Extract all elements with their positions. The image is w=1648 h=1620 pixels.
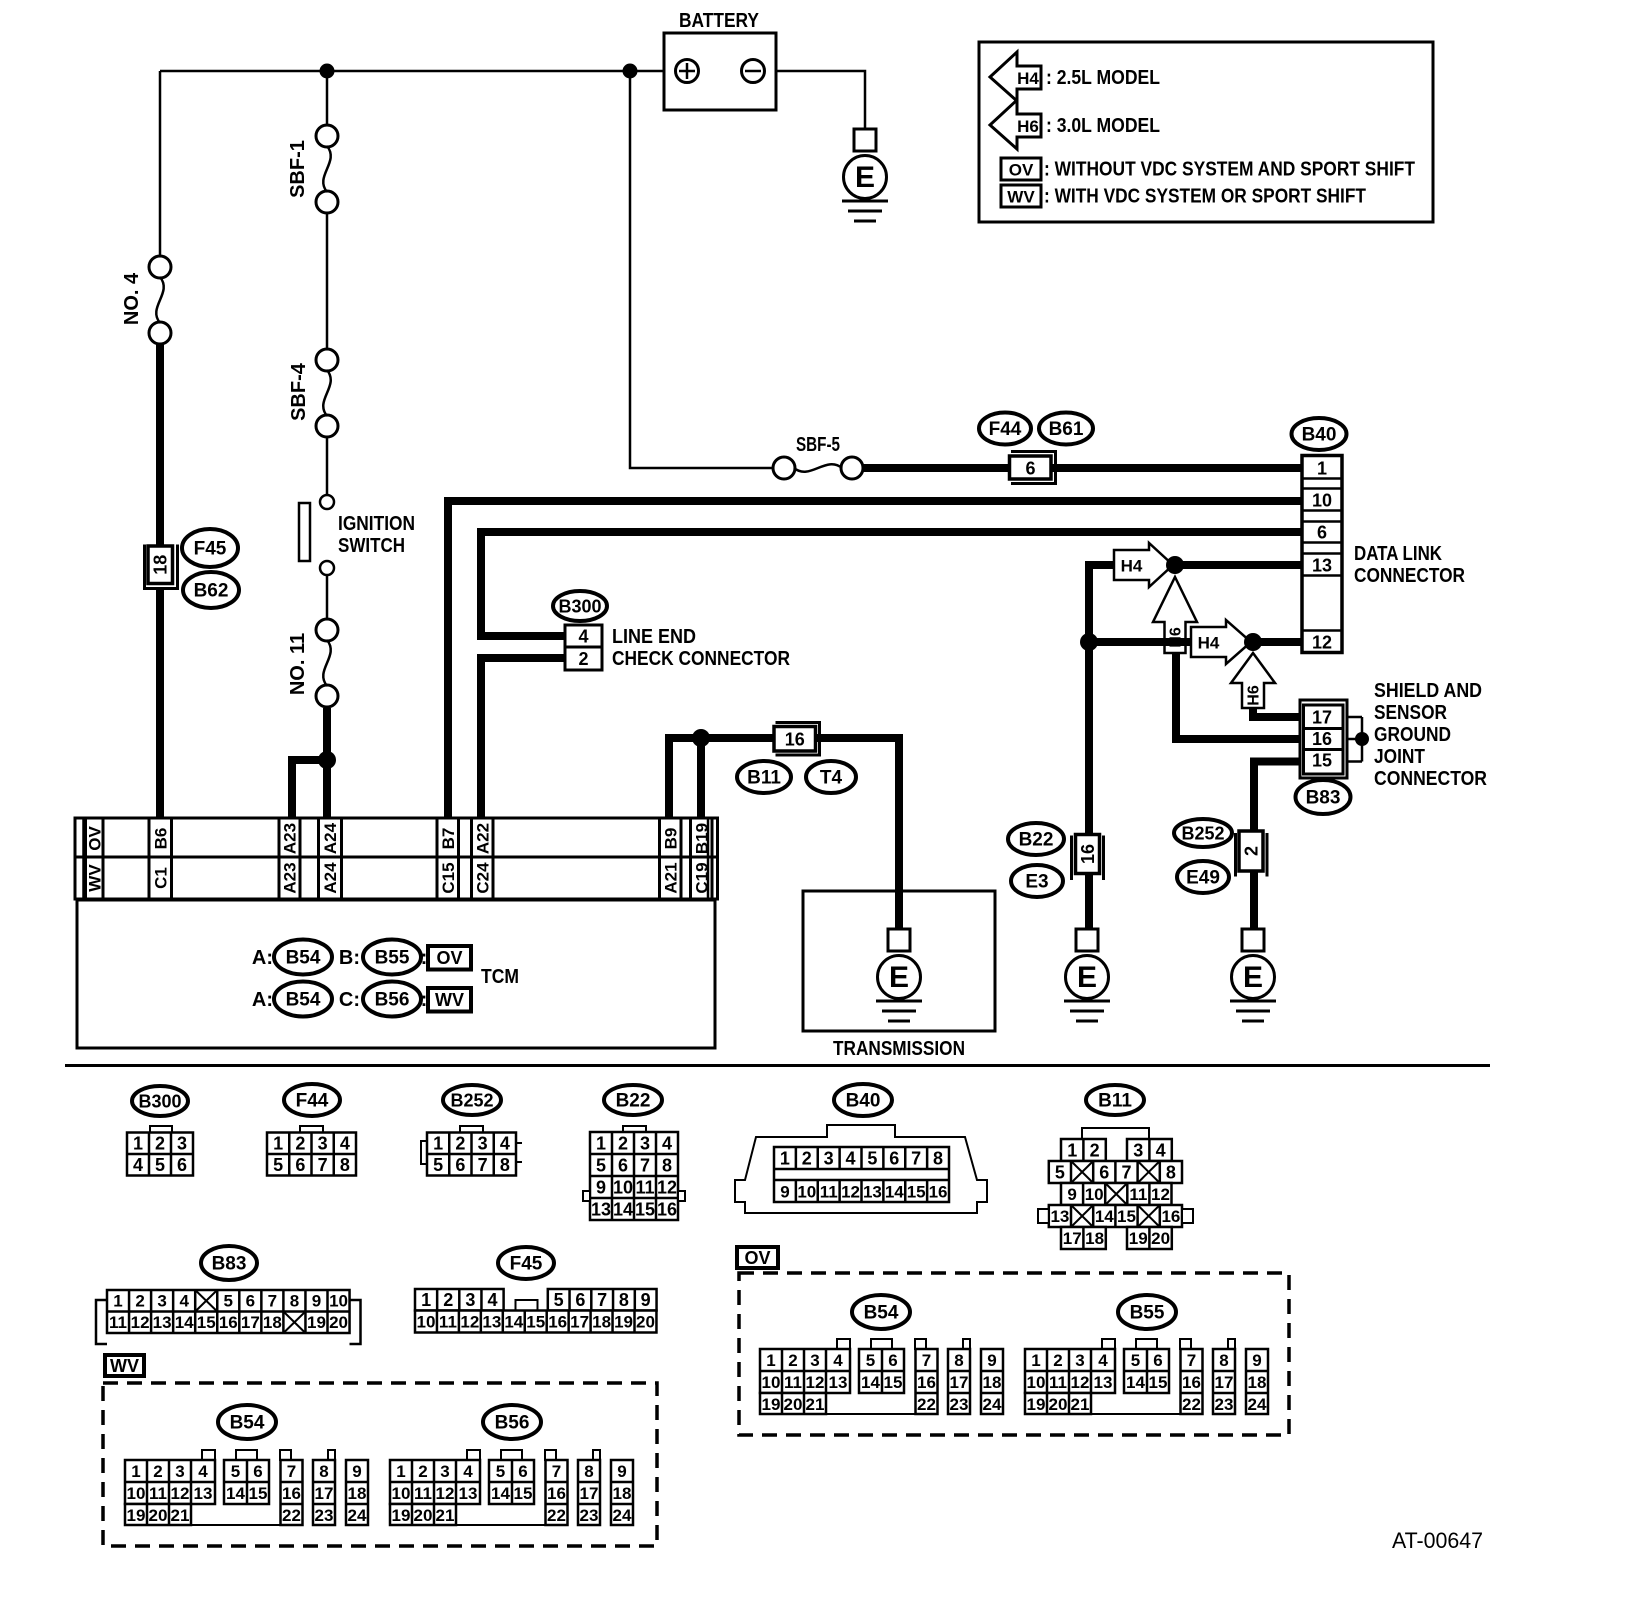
svg-text:B300: B300 <box>138 1091 181 1111</box>
svg-text:16: 16 <box>917 1373 936 1392</box>
svg-text:6: 6 <box>1317 523 1327 543</box>
connector B55 (OV) oval <box>1118 1295 1176 1329</box>
svg-text:1: 1 <box>273 1134 283 1154</box>
svg-text:7: 7 <box>268 1292 277 1311</box>
svg-text:11: 11 <box>784 1373 802 1392</box>
legend H6 arrow <box>990 100 1041 149</box>
svg-text:B300: B300 <box>558 596 601 616</box>
wire branch to B40 pin 12 <box>1089 638 1191 646</box>
svg-text:12: 12 <box>131 1313 150 1332</box>
wire SBF-5 to B40 pin 1 <box>862 464 1303 472</box>
svg-text:13: 13 <box>591 1199 611 1219</box>
svg-text:A23: A23 <box>281 823 300 854</box>
svg-text:2: 2 <box>443 1290 453 1310</box>
svg-text:16: 16 <box>547 1484 566 1503</box>
svg-text:15: 15 <box>514 1484 533 1503</box>
svg-text:18: 18 <box>983 1373 1002 1392</box>
svg-text:4: 4 <box>846 1149 856 1169</box>
svg-text:: WITHOUT VDC SYSTEM AND SPORT: : WITHOUT VDC SYSTEM AND SPORT SHIFT <box>1044 159 1415 181</box>
svg-text:7: 7 <box>318 1155 328 1175</box>
svg-text:11: 11 <box>439 1312 457 1331</box>
svg-text:GROUND: GROUND <box>1374 724 1451 746</box>
svg-text:12: 12 <box>841 1183 860 1202</box>
svg-text:6: 6 <box>518 1462 527 1481</box>
svg-text:8: 8 <box>500 1155 510 1175</box>
svg-text:B252: B252 <box>450 1090 493 1110</box>
svg-text:6: 6 <box>295 1155 305 1175</box>
wire NO.11 to junction <box>323 708 331 818</box>
svg-text:NO. 4: NO. 4 <box>121 272 143 325</box>
svg-text:B61: B61 <box>1049 419 1084 440</box>
svg-text:8: 8 <box>340 1155 350 1175</box>
svg-text:9: 9 <box>780 1183 789 1202</box>
svg-text:12: 12 <box>1151 1185 1170 1204</box>
svg-text:C1: C1 <box>151 867 170 889</box>
svg-text:13: 13 <box>482 1312 501 1331</box>
connector B252 oval <box>1174 819 1232 847</box>
svg-text:10: 10 <box>329 1292 348 1311</box>
svg-text:AT-00647: AT-00647 <box>1392 1528 1483 1553</box>
svg-text:16: 16 <box>1312 729 1332 749</box>
svg-text:15: 15 <box>526 1312 545 1331</box>
svg-text:13: 13 <box>194 1484 213 1503</box>
wire branch to TCM pin A23 <box>292 760 327 818</box>
svg-text:7: 7 <box>478 1155 488 1175</box>
separator line <box>65 1064 1490 1067</box>
svg-text:4: 4 <box>488 1290 498 1310</box>
svg-text:17: 17 <box>1312 708 1332 728</box>
svg-text:6: 6 <box>1025 459 1035 479</box>
svg-text:13: 13 <box>829 1373 848 1392</box>
connector B11 oval <box>737 761 791 793</box>
svg-text:21: 21 <box>1071 1395 1090 1414</box>
svg-text:E49: E49 <box>1186 868 1220 889</box>
svg-text:4: 4 <box>1098 1351 1108 1370</box>
junction node A23/A24 <box>318 751 336 769</box>
ground E (battery) <box>854 129 876 151</box>
svg-text:16: 16 <box>1078 844 1098 864</box>
legend H4 arrow <box>990 52 1041 101</box>
svg-text:2: 2 <box>295 1134 305 1154</box>
svg-text:23: 23 <box>580 1506 599 1525</box>
svg-text:12: 12 <box>171 1484 190 1503</box>
svg-text:6: 6 <box>455 1155 465 1175</box>
svg-text:2: 2 <box>455 1134 465 1154</box>
svg-text:B40: B40 <box>1302 425 1337 446</box>
OV variant dashed box <box>739 1273 1289 1435</box>
svg-text:3: 3 <box>177 1134 187 1154</box>
svg-text:18: 18 <box>592 1312 611 1331</box>
H6 arrow (to B40 pin 12) <box>1231 653 1275 708</box>
svg-text:6: 6 <box>575 1290 585 1310</box>
svg-text:22: 22 <box>1182 1395 1201 1414</box>
H4 arrow (to B40 pin 12) <box>1191 620 1251 664</box>
svg-text:WV: WV <box>1007 188 1035 207</box>
svg-text:B83: B83 <box>212 1254 247 1275</box>
svg-text:5: 5 <box>231 1462 240 1481</box>
svg-text:SHIELD AND: SHIELD AND <box>1374 680 1482 702</box>
wire junction to transmission ground <box>701 738 899 929</box>
connector box 2 (B252/E49) <box>1239 831 1263 871</box>
svg-text:8: 8 <box>1166 1162 1176 1182</box>
svg-text:14: 14 <box>1095 1207 1114 1226</box>
svg-text:C:: C: <box>339 989 360 1011</box>
svg-text:14: 14 <box>491 1484 510 1503</box>
svg-text:10: 10 <box>1312 491 1332 511</box>
svg-text:15: 15 <box>907 1183 926 1202</box>
svg-text:19: 19 <box>762 1395 781 1414</box>
svg-text:17: 17 <box>1063 1229 1082 1248</box>
svg-text:1: 1 <box>421 1290 431 1310</box>
svg-text:B56: B56 <box>375 990 410 1011</box>
svg-text:6: 6 <box>618 1155 628 1175</box>
svg-text:OV: OV <box>85 826 104 851</box>
svg-text:4: 4 <box>463 1462 473 1481</box>
svg-text:3: 3 <box>824 1149 834 1169</box>
svg-text:1: 1 <box>113 1292 122 1311</box>
connector B11 pinout <box>1038 1085 1193 1249</box>
svg-text:7: 7 <box>552 1462 561 1481</box>
svg-text:14: 14 <box>861 1373 880 1392</box>
connector B55 (OV) pinout <box>1025 1339 1268 1414</box>
svg-text:19: 19 <box>392 1506 411 1525</box>
svg-text:2: 2 <box>1090 1140 1100 1160</box>
svg-text:16: 16 <box>657 1199 677 1219</box>
shield and sensor ground joint connector (B83) <box>1300 700 1347 778</box>
svg-text:A24: A24 <box>321 822 340 854</box>
svg-text:8: 8 <box>619 1290 629 1310</box>
junction node at SBF-1 branch <box>320 64 335 79</box>
svg-text:F45: F45 <box>510 1254 543 1275</box>
svg-text:F44: F44 <box>989 419 1022 440</box>
svg-text:2: 2 <box>578 649 588 669</box>
svg-text:C19: C19 <box>692 862 711 893</box>
wire SBF-1 to SBF-4 <box>326 213 329 349</box>
svg-text:7: 7 <box>922 1351 931 1370</box>
svg-text:2: 2 <box>153 1462 162 1481</box>
svg-text:16: 16 <box>219 1313 238 1332</box>
svg-text:17: 17 <box>580 1484 599 1503</box>
svg-text:A:: A: <box>252 989 273 1011</box>
svg-text:13: 13 <box>1094 1373 1113 1392</box>
svg-text:B56: B56 <box>495 1413 530 1434</box>
svg-text:6: 6 <box>889 1149 899 1169</box>
svg-text:F45: F45 <box>194 539 227 560</box>
svg-text:20: 20 <box>784 1395 803 1414</box>
svg-text:23: 23 <box>315 1506 334 1525</box>
svg-text:22: 22 <box>547 1506 566 1525</box>
svg-text:JOINT: JOINT <box>1374 746 1425 768</box>
svg-text:H6: H6 <box>1246 685 1263 706</box>
svg-text:12: 12 <box>1071 1373 1090 1392</box>
wire B252 to ground <box>1250 871 1258 929</box>
svg-text:9: 9 <box>312 1292 321 1311</box>
svg-text:16: 16 <box>1161 1207 1180 1226</box>
svg-text:7: 7 <box>911 1149 921 1169</box>
svg-text:2: 2 <box>155 1134 165 1154</box>
svg-text:8: 8 <box>1219 1351 1228 1370</box>
svg-text:9: 9 <box>1252 1351 1261 1370</box>
svg-text:20: 20 <box>1049 1395 1068 1414</box>
svg-text:A:: A: <box>252 947 273 969</box>
svg-text:7: 7 <box>597 1290 607 1310</box>
svg-text:6: 6 <box>177 1155 187 1175</box>
svg-text:A23: A23 <box>281 862 300 893</box>
connector box 16 (B11/T4) <box>776 723 820 756</box>
svg-text:B11: B11 <box>1098 1091 1132 1112</box>
svg-text:7: 7 <box>640 1155 650 1175</box>
svg-text:22: 22 <box>917 1395 936 1414</box>
svg-text:: 2.5L MODEL: : 2.5L MODEL <box>1046 67 1160 89</box>
TCM connector strip <box>75 818 718 899</box>
svg-text:4: 4 <box>1156 1140 1166 1160</box>
wire NO.4 branch drop <box>159 71 162 257</box>
svg-text:B83: B83 <box>1306 788 1341 809</box>
svg-text:10: 10 <box>417 1312 436 1331</box>
svg-text:8: 8 <box>954 1351 963 1370</box>
connector B22 pinout <box>583 1085 685 1220</box>
wire B22 to ground <box>1085 873 1093 929</box>
fuse NO.11 <box>316 619 338 641</box>
wire H6 branch to shield pin 17 <box>1253 708 1303 717</box>
svg-text:4: 4 <box>133 1155 143 1175</box>
connector B83 oval <box>1296 780 1351 814</box>
connector E49 oval <box>1177 861 1229 893</box>
svg-text:5: 5 <box>596 1155 606 1175</box>
svg-text:23: 23 <box>1215 1395 1234 1414</box>
svg-text:1: 1 <box>596 1133 606 1153</box>
transmission box <box>803 891 995 1031</box>
svg-text:12: 12 <box>436 1484 455 1503</box>
svg-text:2: 2 <box>802 1149 812 1169</box>
svg-text:5: 5 <box>224 1292 233 1311</box>
svg-text:WV: WV <box>85 864 104 892</box>
junction node on pin13 drop <box>1080 633 1098 651</box>
svg-text:8: 8 <box>290 1292 299 1311</box>
svg-text:24: 24 <box>348 1506 367 1525</box>
connector B40 oval <box>1292 418 1347 450</box>
svg-text:3: 3 <box>1133 1140 1143 1160</box>
svg-text:10: 10 <box>762 1373 781 1392</box>
svg-text:H4: H4 <box>1121 557 1143 576</box>
svg-text:21: 21 <box>171 1506 190 1525</box>
svg-text:19: 19 <box>1129 1229 1148 1248</box>
svg-text:11: 11 <box>1129 1185 1147 1204</box>
connector F44 pinout <box>267 1084 356 1176</box>
svg-text:3: 3 <box>318 1134 328 1154</box>
svg-text:21: 21 <box>436 1506 455 1525</box>
wire B300 pin 2 to TCM pin A22 <box>481 658 566 818</box>
svg-text:9: 9 <box>596 1177 606 1197</box>
svg-text:T4: T4 <box>820 768 843 789</box>
svg-text:NO. 11: NO. 11 <box>287 633 309 695</box>
svg-text:19: 19 <box>127 1506 146 1525</box>
connector T4 oval <box>806 761 856 793</box>
svg-text:18: 18 <box>151 555 171 575</box>
svg-text:12: 12 <box>657 1177 677 1197</box>
svg-text:10: 10 <box>127 1484 146 1503</box>
svg-text:11: 11 <box>414 1484 432 1503</box>
junction node at SBF-5 branch <box>623 64 638 79</box>
svg-text:7: 7 <box>1121 1162 1131 1182</box>
svg-text:13: 13 <box>863 1183 882 1202</box>
svg-text:20: 20 <box>329 1313 348 1332</box>
legend WV box <box>1001 185 1041 207</box>
svg-text:6: 6 <box>1153 1351 1162 1370</box>
connector B54 (WV) pinout <box>125 1450 368 1525</box>
svg-text:4: 4 <box>662 1133 672 1153</box>
svg-text:2: 2 <box>418 1462 427 1481</box>
TCM box <box>77 900 715 1048</box>
svg-text:3: 3 <box>157 1292 166 1311</box>
svg-text:24: 24 <box>1248 1395 1267 1414</box>
svg-text:B54: B54 <box>286 948 321 969</box>
connector B62 <box>183 572 239 608</box>
svg-text:11: 11 <box>149 1484 167 1503</box>
svg-text:SBF-5: SBF-5 <box>796 434 840 456</box>
svg-text:A22: A22 <box>473 823 492 854</box>
wire junction to TCM pin B19 <box>697 738 705 818</box>
joint connector bracket <box>1347 717 1362 762</box>
svg-text:: 3.0L MODEL: : 3.0L MODEL <box>1046 115 1160 137</box>
svg-text:20: 20 <box>636 1312 655 1331</box>
fuse SBF-1 <box>316 125 338 147</box>
legend box <box>979 42 1433 222</box>
connector B83 pinout <box>96 1246 361 1344</box>
svg-text:18: 18 <box>1085 1229 1104 1248</box>
svg-text:TRANSMISSION: TRANSMISSION <box>833 1038 965 1060</box>
svg-text:6: 6 <box>253 1462 262 1481</box>
svg-text:SBF-1: SBF-1 <box>287 140 309 198</box>
svg-text:9: 9 <box>1067 1185 1076 1204</box>
svg-text:E: E <box>1243 961 1263 994</box>
svg-text:15: 15 <box>635 1199 655 1219</box>
wire fuse 18 to TCM pin B6 <box>156 588 164 818</box>
svg-text:3: 3 <box>175 1462 184 1481</box>
connector B56 (WV) pinout <box>390 1450 633 1525</box>
svg-text:B54: B54 <box>286 990 321 1011</box>
svg-text:CONNECTOR: CONNECTOR <box>1354 565 1465 587</box>
ignition switch <box>320 495 334 509</box>
svg-text:10: 10 <box>797 1183 816 1202</box>
svg-text:13: 13 <box>459 1484 478 1503</box>
connector F45 pinout <box>415 1247 657 1333</box>
svg-text:1: 1 <box>396 1462 405 1481</box>
connector B61 <box>1039 413 1093 445</box>
svg-text:5: 5 <box>155 1155 165 1175</box>
wire SBF-4 to ignition switch <box>326 437 329 495</box>
svg-text:9: 9 <box>641 1290 651 1310</box>
connector F44 <box>979 413 1031 445</box>
svg-text:B19: B19 <box>692 823 711 854</box>
svg-text:16: 16 <box>1182 1373 1201 1392</box>
wire battery feed to SBF-5 <box>630 71 774 468</box>
svg-text:IGNITION: IGNITION <box>338 513 415 535</box>
svg-text:SBF-4: SBF-4 <box>288 362 310 421</box>
svg-text:2: 2 <box>135 1292 144 1311</box>
connector E3 oval <box>1011 865 1063 897</box>
wire shield pin 15 to B252 connector <box>1254 762 1303 877</box>
svg-text:20: 20 <box>1151 1229 1170 1248</box>
svg-text:2: 2 <box>1053 1351 1062 1370</box>
junction node H4/H6 on pin12 wire <box>1244 633 1262 651</box>
svg-text:F44: F44 <box>296 1091 329 1112</box>
connector B22 oval <box>1008 823 1064 855</box>
wire B40 pin 10 to TCM pin B7 <box>448 501 1303 818</box>
svg-text:B22: B22 <box>1019 830 1054 851</box>
fuse NO.4 <box>149 256 171 278</box>
svg-text:B54: B54 <box>864 1303 899 1324</box>
svg-text:19: 19 <box>614 1312 633 1331</box>
svg-text:3: 3 <box>440 1462 449 1481</box>
svg-text:4: 4 <box>833 1351 843 1370</box>
svg-text:H6: H6 <box>1017 117 1039 136</box>
ground E (transmission) <box>888 929 910 951</box>
svg-text:8: 8 <box>933 1149 943 1169</box>
svg-text:14: 14 <box>175 1313 194 1332</box>
svg-text:H4: H4 <box>1198 634 1220 653</box>
junction node H4/H6 on pin13 wire <box>1166 556 1184 574</box>
svg-text:1: 1 <box>1317 459 1327 479</box>
svg-text:15: 15 <box>1117 1207 1136 1226</box>
svg-text:1: 1 <box>766 1351 775 1370</box>
H6 arrow (to B40 pin 13) <box>1153 577 1197 653</box>
svg-text:B40: B40 <box>846 1091 881 1112</box>
svg-text:5: 5 <box>273 1155 283 1175</box>
svg-text:18: 18 <box>1248 1373 1267 1392</box>
svg-text:11: 11 <box>109 1313 127 1332</box>
svg-text:5: 5 <box>496 1462 505 1481</box>
svg-text:11: 11 <box>1049 1373 1067 1392</box>
svg-text:WV: WV <box>110 1356 139 1376</box>
connector F45 <box>182 529 238 567</box>
svg-text:20: 20 <box>149 1506 168 1525</box>
connector B54 (WV) oval <box>218 1405 276 1439</box>
svg-text:B55: B55 <box>375 948 410 969</box>
svg-text:9: 9 <box>617 1462 626 1481</box>
svg-text:17: 17 <box>241 1313 260 1332</box>
svg-text:11: 11 <box>820 1183 838 1202</box>
svg-text:3: 3 <box>1075 1351 1084 1370</box>
wire B40 pin 13 to B22 connector <box>1089 565 1303 880</box>
svg-text:OV: OV <box>744 1248 770 1268</box>
svg-text:15: 15 <box>1312 751 1332 771</box>
svg-text:1: 1 <box>131 1462 140 1481</box>
connector B40 pinout <box>735 1084 987 1213</box>
connector B40 (data link) pin column <box>1302 456 1342 653</box>
svg-text:4: 4 <box>179 1292 189 1311</box>
svg-text:H6: H6 <box>1168 627 1185 648</box>
svg-text:5: 5 <box>867 1149 877 1169</box>
wire H6 branch to shield pin 16 <box>1176 653 1303 739</box>
svg-text:14: 14 <box>1126 1373 1145 1392</box>
svg-text:4: 4 <box>500 1134 510 1154</box>
svg-text:E: E <box>855 161 875 194</box>
fuse box 18 (F45/B62) <box>145 545 178 589</box>
svg-text:DATA LINK: DATA LINK <box>1354 543 1442 565</box>
connector B54 (OV) pinout <box>760 1339 1003 1414</box>
svg-text:23: 23 <box>950 1395 969 1414</box>
H4 arrow (to B40 pin 13) <box>1114 543 1173 587</box>
ground E (B22/E3) <box>1076 929 1098 951</box>
svg-text:11: 11 <box>635 1177 654 1197</box>
svg-text:1: 1 <box>1031 1351 1040 1370</box>
svg-text:WV: WV <box>435 990 464 1010</box>
svg-text:1: 1 <box>433 1134 443 1154</box>
svg-text:9: 9 <box>987 1351 996 1370</box>
svg-text:14: 14 <box>226 1484 245 1503</box>
svg-text:16: 16 <box>548 1312 567 1331</box>
